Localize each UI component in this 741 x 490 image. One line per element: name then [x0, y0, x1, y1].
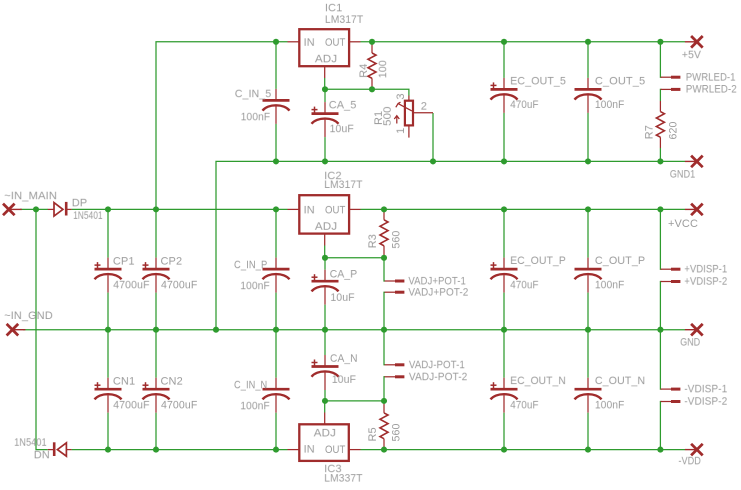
svg-text:LM317T: LM317T — [324, 179, 363, 191]
svg-text:3: 3 — [395, 93, 407, 99]
capacitor CP2 — [143, 209, 170, 329]
svg-text:CN2: CN2 — [160, 376, 182, 388]
junction CP1 / input rail — [105, 206, 111, 212]
svg-text:-VDD: -VDD — [678, 455, 701, 467]
svg-text:EC_OUT_5: EC_OUT_5 — [510, 75, 566, 87]
svg-text:10uF: 10uF — [330, 292, 354, 304]
junction R3 / +VCC rail — [381, 206, 387, 212]
svg-text:IC1: IC1 — [325, 2, 342, 14]
wire: +VCC rail (IC2 OUT to +VCC pin) — [361, 208, 686, 210]
svg-text:470uF: 470uF — [510, 399, 539, 411]
junction C_IN_5 / GND1 — [273, 158, 279, 164]
pin VADJ-POT-2 — [385, 376, 405, 378]
svg-text:100: 100 — [377, 60, 389, 78]
svg-text:R4: R4 — [358, 64, 370, 78]
junction PWRLED / top rail — [657, 39, 663, 45]
pin +VDISP-1 — [661, 268, 681, 270]
svg-text:560: 560 — [391, 231, 403, 249]
svg-text:CA_5: CA_5 — [329, 99, 357, 111]
junction R1 wiper / GND1 — [430, 158, 436, 164]
resistor R7 — [656, 101, 664, 148]
junction C_IN_P / input rail — [273, 206, 279, 212]
svg-text:1N5401: 1N5401 — [14, 437, 47, 449]
junction C_OUT_5 / top rail — [585, 39, 591, 45]
capacitor C_OUT_5 — [575, 42, 602, 162]
junction CN2 / -V rail — [153, 447, 159, 453]
svg-text:CA_P: CA_P — [330, 269, 358, 281]
svg-text:LM317T: LM317T — [325, 14, 364, 26]
svg-text:4700uF: 4700uF — [161, 279, 198, 291]
capacitor CN1 — [95, 330, 122, 450]
pin X +5V — [685, 36, 703, 48]
svg-text:EC_OUT_P: EC_OUT_P — [510, 255, 566, 267]
wire: IC3 ADJ node horizontal (ADJ to R5 top) — [325, 400, 384, 402]
junction EC_OUT_N / -VDD rail — [501, 447, 507, 453]
capacitor CA_P — [312, 258, 339, 330]
junction CA / GND — [322, 327, 328, 333]
wire: unregulated input rail (~IN_MAIN to DP anode) — [20, 208, 48, 210]
wire: +VCC rail down to +VDISP-1 — [660, 209, 661, 269]
svg-text:CN1: CN1 — [113, 376, 135, 388]
junction +VDISP / +VCC rail — [657, 206, 663, 212]
junction EC_OUT_5 / GND1 — [501, 158, 507, 164]
wire: negative input column from ~IN_MAIN junction down to DN diode — [36, 209, 48, 449]
wire: R3 ADJ node down to VADJ+POT-1 — [384, 258, 385, 281]
diode DP 1N5401 — [48, 202, 72, 216]
svg-text:ADJ: ADJ — [314, 427, 336, 439]
junction CN1 / -V rail — [105, 447, 111, 453]
svg-text:470uF: 470uF — [510, 279, 539, 291]
junction -VDISP / -VDD rail — [657, 447, 663, 453]
svg-text:DP: DP — [72, 197, 87, 209]
capacitor C_IN_5 — [263, 42, 290, 162]
svg-text:470uF: 470uF — [510, 99, 539, 111]
pin +VDISP-2 — [661, 281, 681, 283]
svg-text:100nF: 100nF — [595, 399, 625, 411]
svg-text:-VDISP-2: -VDISP-2 — [684, 396, 727, 408]
junction IC3 ADJ / CA_N — [322, 398, 328, 404]
junction R4 / top rail — [369, 39, 375, 45]
svg-text:~IN_MAIN: ~IN_MAIN — [4, 190, 57, 202]
junction R3 bottom — [381, 255, 387, 261]
IC box IC3 — [299, 424, 349, 461]
svg-text:2: 2 — [421, 101, 427, 113]
junction C_OUT_P / +VCC rail — [585, 206, 591, 212]
svg-text:C_OUT_P: C_OUT_P — [595, 255, 645, 267]
junction C_OUT / GND — [585, 327, 591, 333]
capacitor C_IN_N — [263, 330, 290, 450]
junction C_IN_5 / top rail — [273, 39, 279, 45]
pin X GND — [685, 324, 703, 336]
junction C_IN_N / -V rail — [273, 447, 279, 453]
svg-text:GND: GND — [680, 337, 700, 349]
svg-text:4700uF: 4700uF — [113, 279, 150, 291]
capacitor CA_5 — [312, 89, 339, 161]
svg-text:100nF: 100nF — [241, 111, 271, 123]
diode DN 1N5401 — [48, 442, 72, 456]
resistor R5 — [380, 401, 388, 450]
svg-text:-VDISP-1: -VDISP-1 — [684, 383, 727, 395]
capacitor CN2 — [143, 330, 170, 450]
pin VADJ-POT-1 — [385, 364, 405, 366]
wire: +VDISP-2 down to GND rail — [660, 282, 661, 330]
wire: -VDD rail (IC3 OUT to -VDD pin) — [361, 449, 686, 451]
wire: unregulated input rail (DP cathode to IC2 IN) — [72, 208, 288, 210]
resistor R4 — [368, 42, 376, 90]
wire: PWRLED-2 down to resistor R7 — [660, 89, 661, 101]
wire: R7 bottom to GND1 rail — [659, 148, 661, 161]
IC box IC1 — [299, 29, 349, 66]
capacitor EC_OUT_5 — [491, 42, 518, 162]
pin X +VCC — [685, 204, 703, 216]
svg-text:CP1: CP1 — [113, 256, 135, 268]
svg-text:OUT: OUT — [325, 37, 346, 49]
svg-text:VADJ+POT-2: VADJ+POT-2 — [408, 287, 468, 299]
junction R4 bottom — [369, 86, 375, 92]
svg-text:C_OUT_5: C_OUT_5 — [595, 75, 645, 87]
svg-text:CA_N: CA_N — [330, 353, 358, 365]
pin -VDISP-1 — [661, 388, 681, 390]
svg-text:C_IN_N: C_IN_N — [234, 379, 267, 391]
junction VADJ / GND — [381, 327, 387, 333]
wire: +5V rail down to PWRLED-1 — [660, 42, 661, 77]
wire: top +5V rail left segment (IC1 input side) — [156, 42, 288, 210]
pin X ~IN_MAIN — [3, 204, 22, 216]
junction C_OUT_5 / GND1 — [585, 158, 591, 164]
svg-text:4700uF: 4700uF — [161, 399, 198, 411]
svg-text:100nF: 100nF — [595, 279, 625, 291]
svg-text:OUT: OUT — [325, 444, 346, 456]
capacitor C_OUT_N — [575, 330, 602, 450]
pin X ~IN_GND — [7, 324, 26, 336]
svg-text:1: 1 — [395, 128, 407, 134]
svg-text:10uF: 10uF — [330, 123, 354, 135]
svg-text:R7: R7 — [644, 125, 656, 139]
wire: GND1 rail — [216, 161, 685, 329]
pin VADJ+POT-2 — [385, 291, 405, 293]
svg-text:DN: DN — [34, 449, 50, 461]
svg-text:IN: IN — [304, 37, 315, 49]
pin PWRLED-2 — [661, 88, 681, 90]
svg-text:GND1: GND1 — [670, 169, 696, 181]
svg-text:560: 560 — [391, 424, 403, 442]
wire: GND rail down to VADJ-POT-1 — [384, 330, 385, 365]
svg-text:+5V: +5V — [682, 49, 702, 61]
pin VADJ+POT-1 — [385, 280, 405, 282]
svg-text:ADJ: ADJ — [315, 221, 337, 233]
wire: pot R1 wiper to GND1 — [432, 113, 434, 161]
wire: IC2 ADJ node horizontal (ADJ to R3 bottom) — [325, 257, 384, 259]
svg-text:IN: IN — [304, 204, 315, 216]
svg-text:1N5401: 1N5401 — [73, 210, 103, 222]
junction C_OUT_N / -VDD rail — [585, 447, 591, 453]
svg-text:500: 500 — [382, 106, 394, 126]
wire: -VDISP-2 down to -VDD rail — [660, 402, 661, 450]
svg-text:+VCC: +VCC — [668, 218, 698, 230]
junction IC1 ADJ / CA_5 — [322, 86, 328, 92]
svg-text:LM337T: LM337T — [324, 473, 363, 485]
junction C_IN / GND — [273, 327, 279, 333]
junction EC_OUT_P / +VCC rail — [501, 206, 507, 212]
junction R5 top — [381, 398, 387, 404]
IC1 pins — [288, 42, 361, 90]
svg-text:IN: IN — [304, 444, 315, 456]
wire: VADJ-POT-2 down to R5 ADJ node — [384, 377, 385, 401]
svg-text:100nF: 100nF — [595, 99, 625, 111]
svg-text:ADJ: ADJ — [315, 53, 337, 65]
svg-text:100nF: 100nF — [240, 280, 270, 292]
junction GND1 column / GND — [213, 327, 219, 333]
pin X GND1 — [685, 156, 703, 168]
svg-text:100nF: 100nF — [240, 400, 270, 412]
junction CA_5 / GND1 — [322, 158, 328, 164]
capacitor CA_N — [312, 330, 339, 401]
wire: -V rail left segment (DN diode to IC3 IN) — [72, 449, 288, 451]
junction IC2 ADJ / CA_P — [322, 255, 328, 261]
pin X -VDD — [685, 444, 703, 456]
svg-text:R3: R3 — [367, 234, 379, 248]
svg-text:C_OUT_N: C_OUT_N — [595, 375, 645, 387]
wire: top +5V rail right segment (IC1 output to +5V pin) — [361, 41, 686, 43]
wire: GND rail (~IN_GND to GND pin) — [23, 329, 685, 331]
wire: VADJ+POT-2 down to GND rail — [384, 292, 385, 330]
capacitor EC_OUT_N — [491, 330, 518, 450]
wire: IC1 ADJ node horizontal (ADJ to R4 bottom and pot R1) — [325, 89, 409, 95]
junction EC_OUT_5 / top rail — [501, 39, 507, 45]
junction EC_OUT / GND — [501, 327, 507, 333]
svg-text:EC_OUT_N: EC_OUT_N — [510, 375, 566, 387]
svg-text:620: 620 — [668, 122, 680, 140]
svg-text:+VDISP-1: +VDISP-1 — [684, 263, 727, 275]
pin PWRLED-1 — [661, 76, 681, 78]
svg-text:~IN_GND: ~IN_GND — [4, 310, 53, 322]
svg-text:PWRLED-2: PWRLED-2 — [686, 84, 737, 96]
svg-text:4700uF: 4700uF — [113, 399, 150, 411]
IC box IC2 — [299, 195, 349, 233]
wire: GND rail down to -VDISP-1 — [660, 330, 661, 389]
junction CP1-CN1 / GND — [105, 327, 111, 333]
svg-text:VADJ-POT-1: VADJ-POT-1 — [409, 359, 465, 371]
resistor R3 — [380, 209, 388, 257]
junction R7 / GND1 — [657, 158, 663, 164]
potentiometer R1 500 — [394, 96, 433, 138]
capacitor CP1 — [95, 209, 122, 329]
svg-text:VADJ-POT-2: VADJ-POT-2 — [409, 371, 468, 383]
junction input split — [33, 206, 39, 212]
svg-text:CP2: CP2 — [160, 256, 182, 268]
IC3 pins — [288, 401, 361, 450]
svg-text:R5: R5 — [367, 427, 379, 441]
svg-text:C_IN_5: C_IN_5 — [235, 88, 272, 100]
svg-text:C_IN_P: C_IN_P — [234, 259, 267, 271]
junction CP2 / input rail — [153, 206, 159, 212]
svg-text:OUT: OUT — [325, 204, 346, 216]
capacitor C_IN_P — [263, 209, 290, 329]
svg-text:10uF: 10uF — [332, 374, 356, 386]
IC2 pins — [288, 209, 361, 257]
pin -VDISP-2 — [661, 401, 681, 403]
svg-text:PWRLED-1: PWRLED-1 — [686, 72, 736, 84]
junction CP2-CN2 / GND — [153, 327, 159, 333]
capacitor EC_OUT_P — [491, 209, 518, 329]
capacitor C_OUT_P — [575, 209, 602, 329]
junction VDISP / GND — [657, 327, 663, 333]
junction R5 / -VDD rail — [381, 447, 387, 453]
svg-text:+VDISP-2: +VDISP-2 — [684, 276, 727, 288]
